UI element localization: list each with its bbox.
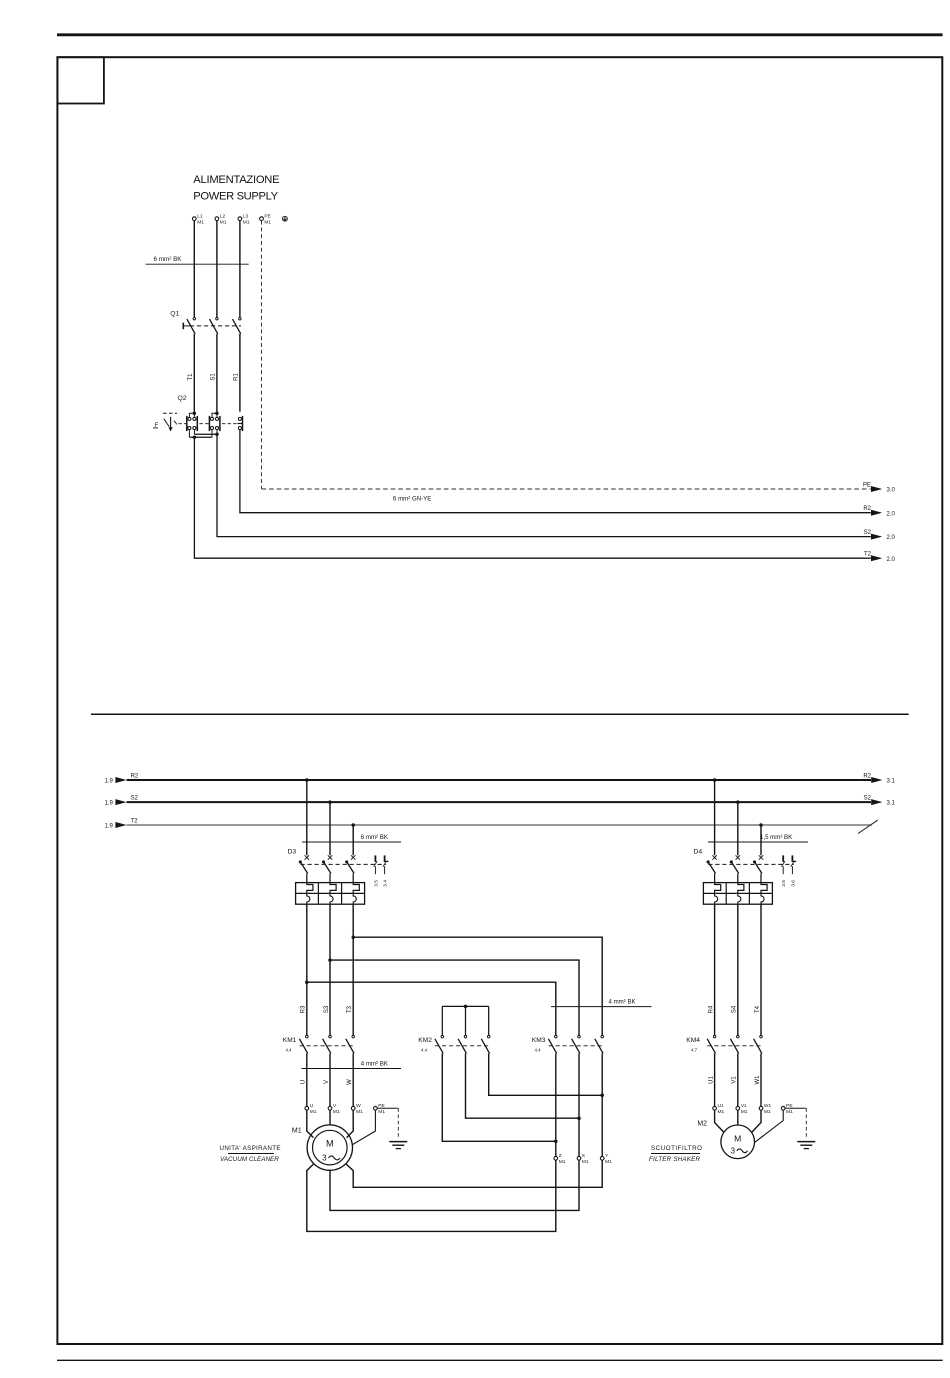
svg-text:M: M [734, 1134, 741, 1144]
wire R4 [708, 904, 714, 1035]
motor breaker D3 [288, 848, 389, 886]
svg-text:D4: D4 [694, 848, 703, 855]
svg-text:R1: R1 [234, 373, 240, 381]
svg-text:4.4: 4.4 [286, 1047, 293, 1052]
terminal U/M1 [305, 1103, 317, 1115]
feed wire R3 to KM3 pole 1 [305, 980, 556, 1035]
cable label 6 mm2 BK (D3 feed) [302, 834, 401, 842]
cable label 1,5 mm2 BK (D4 feed) [708, 834, 808, 842]
svg-text:1.9: 1.9 [104, 824, 113, 830]
svg-text:S2: S2 [131, 795, 139, 801]
svg-text:D3: D3 [288, 848, 297, 855]
contactor KM2 [418, 1035, 490, 1053]
svg-text:POWER SUPPLY: POWER SUPPLY [193, 190, 278, 202]
terminal V1/M1 [736, 1103, 748, 1115]
svg-text:KM2: KM2 [418, 1037, 432, 1044]
svg-text:M1: M1 [718, 1109, 725, 1115]
svg-text:V1: V1 [741, 1103, 747, 1109]
svg-text:S2: S2 [864, 530, 872, 536]
svg-text:Z: Z [559, 1153, 562, 1159]
wire L2 [216, 221, 218, 318]
cable label 4 mm2 BK (KM1 out) [302, 1060, 402, 1068]
terminal L3/M1 [238, 213, 250, 225]
wire S1 [211, 334, 217, 412]
thermal overload D4 [703, 883, 772, 905]
bus S2 [104, 795, 895, 806]
wire V [324, 1053, 330, 1106]
KM2 wires to star points [442, 1053, 604, 1143]
svg-text:Q2: Q2 [178, 395, 187, 402]
svg-text:U: U [301, 1080, 307, 1084]
svg-text:3.6: 3.6 [790, 880, 796, 887]
svg-text:R2: R2 [131, 773, 139, 779]
svg-text:T2: T2 [131, 818, 139, 824]
svg-text:W1: W1 [755, 1075, 761, 1085]
wire PE (dashed) [261, 221, 263, 489]
svg-text:2.0: 2.0 [887, 557, 896, 563]
svg-text:V: V [324, 1080, 330, 1084]
svg-text:M1: M1 [310, 1109, 317, 1115]
contactor KM3 [532, 1035, 604, 1053]
svg-text:S3: S3 [324, 1005, 330, 1013]
wire T4 [755, 904, 761, 1035]
terminal V/M1 [328, 1103, 340, 1115]
svg-text:M1: M1 [559, 1159, 566, 1165]
cable label 4 mm2 BK (KM3 feed) [551, 999, 652, 1007]
wire PE to right (dashed) [262, 482, 896, 502]
svg-text:L3: L3 [243, 213, 249, 219]
svg-text:M1: M1 [264, 219, 271, 225]
plug-socket device Q2 [153, 395, 237, 432]
wire U1 [708, 1053, 714, 1106]
label UNITA ASPIRANTE / VACUUM CLEANER [220, 1145, 281, 1163]
KM3 wires to Z X Y [555, 1053, 557, 1156]
motor M2 [697, 1121, 754, 1159]
svg-text:V1: V1 [732, 1076, 738, 1084]
label SCUOTIFILTRO / FILTER SHAKER [649, 1145, 703, 1163]
svg-text:4.7: 4.7 [691, 1047, 698, 1052]
svg-text:1.9: 1.9 [104, 779, 113, 785]
motor M1 [292, 1125, 353, 1170]
svg-text:4 mm² BK: 4 mm² BK [609, 999, 636, 1006]
svg-text:ALIMENTAZIONE: ALIMENTAZIONE [193, 174, 279, 186]
Q2 pole 3 contact [238, 416, 243, 431]
svg-text:M1: M1 [786, 1109, 793, 1115]
svg-text:KM4: KM4 [686, 1037, 700, 1044]
svg-text:R2: R2 [863, 773, 871, 779]
wire W1 [755, 1053, 761, 1106]
wire to R2 (out) [240, 430, 896, 518]
svg-text:S2: S2 [864, 795, 872, 801]
svg-text:W: W [356, 1103, 361, 1109]
terminal L2/M1 [215, 213, 227, 225]
motor M2 leads [715, 1110, 784, 1142]
svg-text:M1: M1 [292, 1125, 302, 1134]
svg-text:T3: T3 [347, 1005, 353, 1013]
svg-text:U: U [310, 1103, 314, 1109]
svg-text:3.5: 3.5 [373, 880, 379, 887]
ground (motor 2) [797, 1142, 815, 1149]
svg-text:M1: M1 [356, 1109, 363, 1115]
svg-text:S1: S1 [211, 373, 217, 381]
svg-text:UNITA' ASPIRANTE: UNITA' ASPIRANTE [220, 1145, 281, 1152]
svg-text:3.0: 3.0 [887, 488, 896, 494]
terminal PE/M1 (motor 1) [374, 1103, 386, 1115]
motor M1 leads [307, 1110, 376, 1144]
svg-text:M1: M1 [582, 1159, 589, 1165]
svg-text:1,5 mm² BK: 1,5 mm² BK [760, 834, 792, 841]
star bridge over KM2 [442, 1005, 488, 1036]
svg-text:6 mm² GN-YE: 6 mm² GN-YE [393, 495, 431, 502]
wire S3 [324, 904, 330, 1035]
wire to S2 (out) [217, 434, 896, 541]
svg-text:3.1: 3.1 [887, 779, 896, 785]
ground (motor 1) [389, 1142, 407, 1149]
motor M1 winding return wires [307, 1160, 602, 1231]
terminal PE/M1 (motor 2) [781, 1103, 793, 1115]
svg-text:3.1: 3.1 [887, 801, 896, 807]
svg-text:M1: M1 [197, 219, 204, 225]
svg-text:L2: L2 [220, 213, 226, 219]
svg-text:M: M [326, 1138, 334, 1148]
contactor KM4 [686, 1035, 762, 1053]
terminal U1/M1 [713, 1103, 725, 1115]
wire R3 [301, 904, 307, 1035]
svg-text:M1: M1 [764, 1109, 771, 1115]
cable label 6 mm2 BK [146, 256, 249, 264]
terminal L1/M1 [192, 213, 204, 225]
wire L3 [239, 221, 241, 318]
svg-text:S4: S4 [732, 1005, 738, 1013]
svg-text:M1: M1 [605, 1159, 612, 1165]
wire T3 [347, 904, 353, 1035]
svg-text:3: 3 [322, 1154, 327, 1163]
svg-text:KM3: KM3 [532, 1037, 546, 1044]
main switch Q1 [170, 311, 241, 334]
svg-text:R2: R2 [863, 506, 871, 512]
svg-text:M1: M1 [741, 1109, 748, 1115]
contactor KM1 [283, 1035, 355, 1053]
svg-text:W: W [347, 1079, 353, 1085]
bus T2 [104, 818, 877, 833]
svg-text:Q1: Q1 [170, 311, 179, 318]
svg-text:T4: T4 [755, 1005, 761, 1013]
terminal Y/M1 [600, 1153, 612, 1165]
svg-text:M1: M1 [220, 219, 227, 225]
svg-text:6 mm² BK: 6 mm² BK [361, 834, 388, 841]
wire V1 [732, 1053, 738, 1106]
svg-text:M1: M1 [378, 1109, 385, 1115]
feed wire S3 to KM3 pole 2 [328, 958, 579, 1035]
svg-text:KM1: KM1 [283, 1037, 297, 1044]
svg-text:3.4: 3.4 [383, 880, 389, 887]
feed wires to D3 [306, 780, 308, 855]
svg-text:PE: PE [264, 213, 271, 219]
PE wire to ground (motor 2) [785, 1108, 806, 1139]
svg-text:SCUOTIFILTRO: SCUOTIFILTRO [651, 1145, 703, 1152]
svg-text:3: 3 [731, 1146, 736, 1155]
svg-text:R4: R4 [708, 1005, 714, 1013]
feed wires to D4 [714, 780, 716, 855]
svg-text:T1: T1 [188, 373, 194, 381]
earth symbol [283, 216, 288, 221]
motor breaker D4 [694, 848, 797, 886]
svg-text:4 mm² BK: 4 mm² BK [361, 1060, 388, 1067]
terminal W1/M1 [759, 1103, 771, 1115]
Q2 pole 1 contact block [187, 412, 198, 432]
svg-text:PE: PE [863, 482, 871, 488]
title ALIMENTAZIONE / POWER SUPPLY [193, 174, 279, 203]
Q2 pole 2 contact block [209, 412, 220, 432]
wire R1 [234, 334, 240, 412]
svg-text:4.4: 4.4 [421, 1047, 428, 1052]
svg-text:R3: R3 [301, 1005, 307, 1013]
PE wire to ground (motor 1) [377, 1108, 398, 1139]
svg-text:4.4: 4.4 [535, 1047, 542, 1052]
wire S4 [732, 904, 738, 1035]
svg-text:L1: L1 [197, 213, 203, 219]
wire L1 [193, 221, 195, 318]
terminal X/M1 [577, 1153, 589, 1165]
svg-text:FILTER SHAKER: FILTER SHAKER [649, 1156, 701, 1163]
svg-text:U1: U1 [708, 1076, 714, 1084]
thermal overload D3 [296, 883, 365, 905]
svg-text:U1: U1 [718, 1103, 724, 1109]
terminal W/M1 [351, 1103, 363, 1115]
svg-text:T2: T2 [864, 552, 872, 558]
svg-text:M1: M1 [243, 219, 250, 225]
wire U [301, 1053, 307, 1106]
svg-text:VACUUM CLEANER: VACUUM CLEANER [220, 1156, 279, 1163]
svg-text:2.0: 2.0 [887, 511, 896, 517]
svg-text:W1: W1 [764, 1103, 772, 1109]
bus R2 [104, 773, 895, 784]
terminal PE/M1 [260, 213, 272, 225]
Q2 bottom bridges [189, 430, 218, 439]
svg-text:M1: M1 [333, 1109, 340, 1115]
svg-text:1.9: 1.9 [104, 801, 113, 807]
svg-text:M2: M2 [697, 1121, 707, 1128]
bus junction nodes [305, 778, 309, 782]
wire W [347, 1053, 353, 1106]
svg-text:6 mm² BK: 6 mm² BK [154, 256, 183, 263]
wire T1 [188, 334, 194, 412]
svg-text:2.0: 2.0 [887, 535, 896, 541]
wire to T2 (out) [194, 437, 895, 563]
svg-text:3.5: 3.5 [781, 880, 787, 887]
terminal Z/M1 [554, 1153, 566, 1165]
feed wire T3 to KM3 pole 3 [351, 935, 602, 1035]
